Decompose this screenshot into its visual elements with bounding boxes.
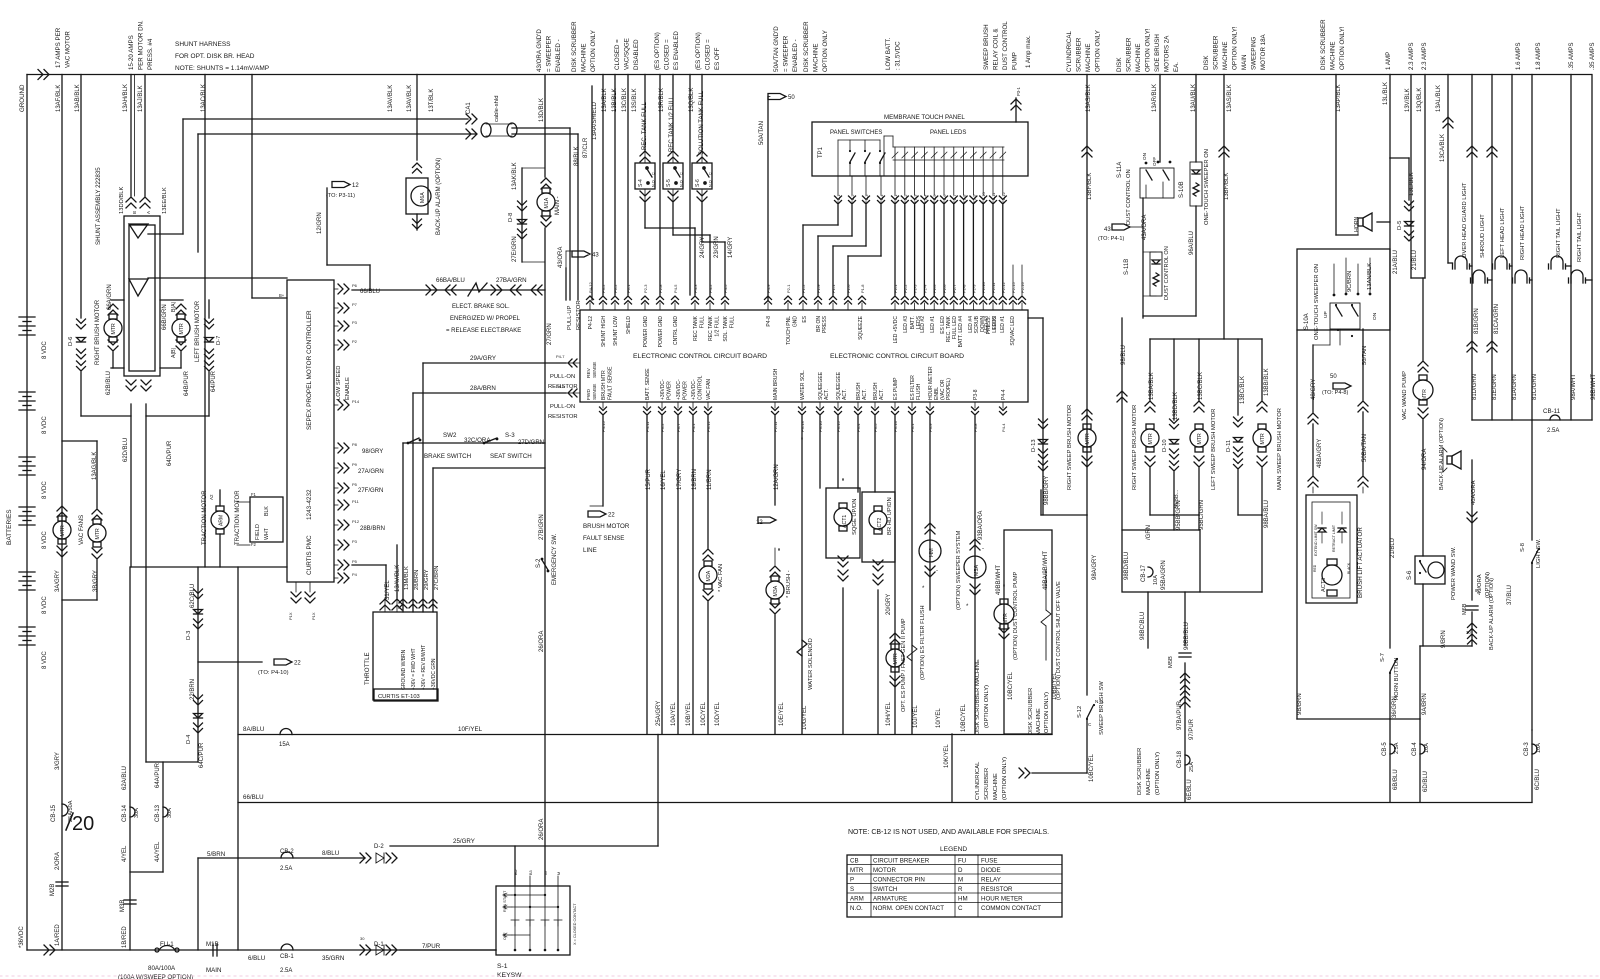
svg-text:RIGHT TAIL LIGHT: RIGHT TAIL LIGHT (1577, 212, 1583, 262)
svg-text:TOUCH PNL: TOUCH PNL (786, 316, 792, 345)
svg-text:P1-9: P1-9 (816, 284, 821, 293)
svg-text:8 VDC: 8 VDC (42, 341, 48, 359)
svg-text:FU: FU (958, 858, 966, 865)
svg-text:P2-5: P2-5 (932, 284, 937, 293)
svg-text:P1-6: P1-6 (846, 284, 851, 293)
svg-text:13M/BLK: 13M/BLK (404, 566, 410, 590)
svg-text:B3: B3 (529, 870, 533, 875)
svg-text:GROUND: GROUND (19, 84, 26, 112)
svg-text:.35 AMPS: .35 AMPS (1589, 42, 1596, 70)
svg-text:6/BLU: 6/BLU (248, 955, 265, 962)
svg-text:RESISTOR: RESISTOR (981, 886, 1013, 893)
svg-text:10BC/YEL: 10BC/YEL (1008, 671, 1014, 700)
svg-text:62B/BLU: 62B/BLU (106, 371, 112, 395)
svg-text:13AS/BLK: 13AS/BLK (1227, 84, 1233, 112)
svg-text:97/PUR: 97/PUR (1189, 718, 1195, 740)
svg-text:P2-8: P2-8 (658, 284, 663, 293)
svg-text:62A/BLU: 62A/BLU (122, 766, 128, 790)
svg-text:9/BRN: 9/BRN (1441, 630, 1447, 648)
svg-text:12/GRN: 12/GRN (317, 212, 323, 234)
svg-text:MACHINE: MACHINE (1036, 708, 1042, 735)
svg-text:P6-2: P6-2 (613, 284, 618, 293)
svg-text:81CA/GRN: 81CA/GRN (1494, 304, 1500, 334)
svg-text:6E/BLU: 6E/BLU (1187, 779, 1193, 800)
svg-text:C: C (958, 905, 963, 912)
svg-text:POWER WAND SW.: POWER WAND SW. (1451, 546, 1457, 600)
svg-text:SQGE UP/DN: SQGE UP/DN (852, 499, 858, 535)
svg-text:RESISTOR: RESISTOR (576, 300, 582, 330)
svg-text:BATTERIES: BATTERIES (6, 509, 13, 545)
svg-text:POWER: POWER (667, 381, 673, 400)
svg-text:10BC/YEL: 10BC/YEL (1089, 753, 1095, 782)
svg-text:HOUR METER: HOUR METER (981, 896, 1023, 903)
svg-text:COMMON CONTACT: COMMON CONTACT (981, 905, 1041, 912)
svg-text:66/BLU: 66/BLU (243, 794, 264, 801)
svg-text:6B/BLU: 6B/BLU (1393, 769, 1399, 790)
svg-text:10E/YEL: 10E/YEL (779, 702, 785, 726)
svg-text:M5A: M5A (974, 565, 980, 576)
svg-text:MTR: MTR (850, 867, 864, 874)
svg-text:13S/BLK: 13S/BLK (632, 88, 638, 112)
svg-text:P1-1: P1-1 (831, 284, 836, 293)
svg-text:98/GRY: 98/GRY (362, 449, 383, 455)
svg-text:POWER: POWER (683, 381, 689, 400)
svg-text:35/GRN: 35/GRN (322, 955, 344, 962)
svg-text:1 AMP: 1 AMP (1385, 52, 1392, 70)
svg-text:8 VDC: 8 VDC (42, 531, 48, 549)
svg-text:CNTRL GND: CNTRL GND (673, 316, 679, 345)
svg-text:1.8 AMPS: 1.8 AMPS (1535, 42, 1542, 70)
svg-text:N.O.: N.O. (850, 905, 863, 912)
svg-text:S-8: S-8 (1520, 543, 1526, 552)
svg-text:48/GRY: 48/GRY (1311, 379, 1317, 400)
svg-text:P2-3: P2-3 (643, 284, 648, 293)
svg-text:CB-1: CB-1 (280, 954, 294, 960)
svg-text:RED: RED (1313, 564, 1317, 572)
svg-text:1B/RED: 1B/RED (122, 926, 128, 948)
svg-text:DISK: DISK (1116, 57, 1123, 72)
svg-text:13DD/BLK: 13DD/BLK (119, 186, 125, 214)
svg-text:B: B (132, 211, 137, 214)
svg-text:P2-11: P2-11 (991, 192, 996, 203)
svg-text:MACHINE: MACHINE (1222, 41, 1229, 70)
svg-text:26/ORA: 26/ORA (539, 819, 545, 840)
svg-text:WHT: WHT (264, 527, 270, 540)
svg-text:P3-8: P3-8 (973, 389, 979, 400)
svg-text:BACK-UP ALARM (OPTION): BACK-UP ALARM (OPTION) (436, 158, 442, 235)
svg-text:15A: 15A (279, 742, 290, 748)
svg-text:PROPEL): PROPEL) (946, 378, 952, 400)
svg-text:12: 12 (756, 520, 763, 526)
svg-text:43/ORA: 43/ORA (558, 247, 564, 268)
svg-text:27C/BRN: 27C/BRN (434, 566, 440, 590)
svg-text:LED #1: LED #1 (930, 316, 936, 333)
svg-text:D-5: D-5 (1397, 221, 1403, 230)
svg-text:P4-9: P4-9 (766, 284, 771, 293)
svg-text:REV: REV (586, 367, 592, 378)
svg-text:P4-7: P4-7 (556, 354, 565, 359)
svg-text:FAULT SENSE: FAULT SENSE (583, 535, 624, 542)
svg-text:10K/YEL: 10K/YEL (944, 744, 950, 768)
svg-text:98BA/BLU: 98BA/BLU (1264, 500, 1270, 528)
svg-text:P2-9: P2-9 (971, 284, 976, 293)
svg-text:64C/PUR: 64C/PUR (199, 742, 205, 768)
svg-text:(TO: P4-1): (TO: P4-1) (1098, 236, 1124, 242)
svg-text:SWEEP BRUSH SW: SWEEP BRUSH SW (1099, 681, 1105, 735)
svg-text:CB-14: CB-14 (122, 804, 128, 822)
svg-text:DISK SCRUBBER: DISK SCRUBBER (1320, 19, 1327, 70)
svg-text:P2-4: P2-4 (922, 194, 927, 203)
svg-text:D: D (958, 867, 963, 874)
svg-text:29/GRY: 29/GRY (424, 569, 430, 590)
svg-text:43/ORA GND'D: 43/ORA GND'D (536, 29, 543, 72)
svg-text:8 VDC: 8 VDC (42, 651, 48, 669)
svg-text:P11: P11 (352, 499, 360, 504)
svg-text:PULL-UP: PULL-UP (567, 305, 573, 330)
svg-text:S-10A: S-10A (1304, 313, 1310, 330)
svg-text:1/2 FULL: 1/2 FULL (715, 316, 721, 337)
svg-text:(OPTION) ES FILTER FLUSH: (OPTION) ES FILTER FLUSH (920, 606, 926, 681)
svg-text:SQUEEZE: SQUEEZE (858, 315, 864, 340)
svg-text:P9: P9 (352, 462, 358, 467)
svg-text:62D/BLU: 62D/BLU (123, 438, 129, 462)
svg-text:OPTION ONLY!: OPTION ONLY! (1145, 28, 1152, 72)
svg-text:DUST CONTROL ON: DUST CONTROL ON (1126, 169, 1132, 225)
svg-text:R: R (958, 886, 963, 893)
svg-text:RIGHT SWEEP BRUSH MOTOR: RIGHT SWEEP BRUSH MOTOR (1132, 405, 1138, 490)
svg-text:: 31.5VDC: : 31.5VDC (895, 41, 902, 70)
svg-text:WATER SOLENOID: WATER SOLENOID (808, 638, 814, 690)
svg-text:27B/GRN: 27B/GRN (539, 514, 545, 540)
svg-text:SQ/VAC LED: SQ/VAC LED (1010, 316, 1016, 346)
svg-text:10D/YEL: 10D/YEL (715, 701, 721, 726)
svg-text:9A/BRN: 9A/BRN (1422, 693, 1428, 715)
svg-text:CB-17: CB-17 (1141, 564, 1147, 582)
svg-text:(OPTION ONLY): (OPTION ONLY) (1044, 692, 1050, 735)
svg-text:MAIN SWEEP BRUSH MOTOR: MAIN SWEEP BRUSH MOTOR (1277, 408, 1283, 490)
svg-text:CIRCUIT BREAKER: CIRCUIT BREAKER (873, 858, 930, 865)
svg-text:13V/BLK: 13V/BLK (1405, 88, 1411, 112)
svg-text:+36V = FWD WHT: +36V = FWD WHT (411, 648, 417, 690)
svg-text:P4-6: P4-6 (556, 384, 565, 389)
svg-text:13AP/BLK: 13AP/BLK (1336, 84, 1342, 112)
svg-text:ES ENABLED: ES ENABLED (673, 31, 680, 70)
svg-text:RIGHT HEAD LIGHT: RIGHT HEAD LIGHT (1520, 205, 1526, 260)
svg-text:CLOSED =: CLOSED = (664, 39, 671, 70)
svg-text:MACHINE: MACHINE (1146, 768, 1152, 795)
svg-text:VAC FAN: VAC FAN (706, 379, 712, 400)
svg-text:P2-15: P2-15 (1011, 282, 1016, 293)
svg-text:98B/WHT: 98B/WHT (1591, 374, 1597, 400)
svg-text:SCRUBBER: SCRUBBER (1213, 35, 1220, 70)
svg-text:25A/GRY: 25A/GRY (656, 701, 662, 726)
svg-text:P4-12: P4-12 (588, 282, 593, 293)
svg-text:10J/YEL: 10J/YEL (913, 705, 919, 728)
svg-text:P5: P5 (352, 559, 358, 564)
svg-text:CB-15: CB-15 (51, 804, 57, 822)
svg-text:98A/WHT: 98A/WHT (1571, 374, 1577, 400)
svg-text:ES: ES (802, 315, 808, 322)
svg-text:21A/BLU: 21A/BLU (1393, 250, 1399, 274)
svg-text:95BA/GRN: 95BA/GRN (1161, 560, 1167, 590)
svg-text:27F/GRN: 27F/GRN (358, 488, 383, 494)
svg-text:10A: 10A (1153, 575, 1159, 585)
svg-text:MOTOR 18A: MOTOR 18A (1260, 33, 1267, 70)
svg-text:50A/TAN: 50A/TAN (759, 121, 765, 145)
svg-text:2.5A: 2.5A (1394, 742, 1400, 754)
svg-text:CB-4: CB-4 (1412, 742, 1418, 756)
svg-text:27BA/GRN: 27BA/GRN (496, 277, 527, 284)
svg-text:21/BLU: 21/BLU (1390, 538, 1396, 558)
svg-text:* BRUSH -: * BRUSH - (786, 570, 792, 598)
svg-text:DIODE: DIODE (981, 867, 1001, 874)
svg-text:S-10B: S-10B (1179, 181, 1185, 198)
svg-text:BR HD UP/DN: BR HD UP/DN (887, 497, 893, 535)
svg-text:ENABLED -: ENABLED - (792, 39, 799, 72)
svg-text:27A/GRN: 27A/GRN (358, 469, 384, 475)
svg-text:BRUSH MOTOR: BRUSH MOTOR (583, 523, 630, 530)
svg-text:BLK: BLK (264, 506, 270, 516)
svg-text:10H/YEL: 10H/YEL (886, 701, 892, 726)
svg-text:(OPTION ONLY): (OPTION ONLY) (1002, 757, 1008, 800)
svg-text:P2-10: P2-10 (981, 282, 986, 293)
svg-text:P1X: P1X (311, 612, 316, 620)
svg-text:87/CLR: 87/CLR (583, 137, 589, 158)
svg-text:94/ORA: 94/ORA (1422, 449, 1428, 470)
svg-text:REC TANK: REC TANK (693, 315, 699, 340)
svg-text:FOR OPT. DISK BR. HEAD: FOR OPT. DISK BR. HEAD (175, 53, 255, 60)
svg-text:ACT.: ACT. (842, 389, 848, 400)
svg-text:13AN/BLK: 13AN/BLK (1367, 263, 1373, 290)
svg-text:2.3 AMPS: 2.3 AMPS (1421, 42, 1428, 70)
svg-text:.35 AMPS: .35 AMPS (1568, 42, 1575, 70)
svg-text:2/ORA: 2/ORA (55, 852, 61, 870)
svg-text:30: 30 (360, 936, 365, 941)
svg-text:(ES OPTION): (ES OPTION) (654, 32, 661, 70)
svg-text:81D/GRN: 81D/GRN (1472, 374, 1478, 400)
svg-text:S-5: S-5 (666, 179, 672, 187)
svg-text:FULL: FULL (700, 316, 706, 328)
svg-text:BLACK: BLACK (1347, 562, 1351, 574)
svg-text:VAC MOTOR: VAC MOTOR (65, 31, 72, 68)
svg-text:DISABLED: DISABLED (633, 39, 640, 70)
svg-text:P1-4: P1-4 (879, 194, 884, 203)
svg-text:/GRN: /GRN (1146, 525, 1152, 540)
svg-text:CYLINDRICAL: CYLINDRICAL (975, 761, 981, 800)
svg-text:P12: P12 (352, 519, 360, 524)
svg-text:ARMATURE: ARMATURE (873, 896, 907, 903)
svg-text:22: 22 (608, 513, 615, 519)
svg-text:PULL-ON: PULL-ON (550, 404, 575, 410)
svg-text:CA1: CA1 (466, 102, 472, 114)
svg-text:1A/RED: 1A/RED (55, 924, 61, 946)
svg-text:64D/PUR: 64D/PUR (167, 440, 173, 466)
svg-text:MAIN: MAIN (1241, 55, 1248, 70)
svg-text:FUSE: FUSE (981, 858, 998, 865)
svg-text:D-13: D-13 (1031, 439, 1037, 452)
svg-text:P2-12: P2-12 (1001, 282, 1006, 293)
svg-text:ARM: ARM (219, 515, 225, 526)
svg-text:M1A: M1A (544, 197, 550, 208)
svg-text:P2-7: P2-7 (952, 284, 957, 293)
svg-text:CB-11: CB-11 (1543, 408, 1561, 415)
svg-text:CB-5: CB-5 (1382, 742, 1388, 756)
svg-text:S-6: S-6 (1407, 570, 1413, 580)
svg-text:TRACTION MOTOR: TRACTION MOTOR (235, 490, 241, 545)
svg-text:HORN: HORN (1354, 216, 1360, 232)
svg-text:64/PUR: 64/PUR (211, 370, 217, 392)
svg-text:2.5A: 2.5A (280, 968, 292, 974)
svg-text:REC TANK: REC TANK (708, 315, 714, 340)
svg-text:17 AMPS PER: 17 AMPS PER (55, 27, 62, 68)
svg-text:13Q/BLK: 13Q/BLK (1417, 88, 1423, 112)
svg-text:SWITCH: SWITCH (873, 886, 897, 893)
svg-text:ENABLE: ENABLE (345, 377, 351, 400)
svg-text:MAIN: MAIN (206, 967, 221, 974)
svg-text:SHUNT HARNESS: SHUNT HARNESS (175, 41, 231, 48)
svg-text:50: 50 (1330, 374, 1337, 380)
svg-text:P5: P5 (352, 482, 358, 487)
svg-text:(ES OPTION): (ES OPTION) (695, 32, 702, 70)
svg-text:13T/BLK: 13T/BLK (429, 89, 435, 112)
svg-text:P2-16: P2-16 (1020, 282, 1025, 293)
svg-text:(OPTION) SWEEPER SYSTEM: (OPTION) SWEEPER SYSTEM (956, 530, 962, 610)
svg-text:MTR: MTR (1260, 433, 1266, 444)
svg-text:(OPTION ONLY): (OPTION ONLY) (984, 685, 990, 728)
svg-text:MTR: MTR (179, 323, 185, 334)
svg-text:P2-5: P2-5 (932, 194, 937, 203)
svg-text:SENSE: SENSE (592, 384, 598, 400)
svg-text:10G/YEL: 10G/YEL (802, 705, 808, 730)
svg-text:D-2: D-2 (374, 844, 384, 850)
svg-text:LED #1: LED #1 (1000, 316, 1006, 333)
svg-text:98BB/GRY: 98BB/GRY (1044, 476, 1050, 505)
svg-text:C: C (1088, 722, 1092, 727)
svg-text:15-20 AMPS: 15-20 AMPS (128, 35, 135, 70)
svg-text:DISK SCRUBBER: DISK SCRUBBER (803, 21, 810, 72)
svg-text:2.5A: 2.5A (280, 866, 292, 872)
svg-text:81B/GRN: 81B/GRN (1474, 308, 1480, 334)
svg-text:+36VDC-: +36VDC- (676, 379, 682, 400)
svg-text:WATER SOL.: WATER SOL. (800, 370, 806, 400)
svg-text:BATT. LED #4: BATT. LED #4 (958, 316, 964, 348)
svg-text:RESISTOR: RESISTOR (548, 414, 578, 420)
svg-text:VAC/SQGE: VAC/SQGE (624, 38, 631, 70)
svg-text:LOW SPEED: LOW SPEED (336, 366, 342, 400)
svg-text:10A: 10A (1536, 743, 1542, 753)
svg-text:MOTOR: MOTOR (873, 867, 896, 874)
svg-text:ELECTRONIC CONTROL CIRCUIT BOA: ELECTRONIC CONTROL CIRCUIT BOARD (633, 353, 767, 360)
svg-text:DISK: DISK (1203, 55, 1210, 70)
svg-text:D-6: D-6 (68, 337, 74, 346)
svg-text:P4-12: P4-12 (588, 316, 594, 330)
svg-text:P3: P3 (352, 320, 358, 325)
svg-text:(OPTION) DUST CONTROL PUMP: (OPTION) DUST CONTROL PUMP (1013, 571, 1019, 660)
svg-text:M5B: M5B (1168, 656, 1174, 668)
svg-text:M3A: M3A (773, 585, 779, 596)
svg-text:14/GRY: 14/GRY (728, 237, 734, 258)
svg-text:OFF: OFF (503, 932, 507, 940)
svg-text:7/PUR: 7/PUR (422, 943, 441, 950)
svg-text:13BB/BLK: 13BB/BLK (1264, 368, 1270, 396)
svg-text:P1-1: P1-1 (836, 194, 841, 203)
svg-text:28/BRN: 28/BRN (414, 570, 420, 590)
svg-text:27E/GRN: 27E/GRN (512, 236, 518, 262)
svg-text:ENABLED -: ENABLED - (555, 39, 562, 72)
svg-text:M2A: M2A (706, 570, 712, 581)
svg-text:GROUND W/BRN: GROUND W/BRN (401, 649, 407, 690)
svg-text:(OPTION ONLY): (OPTION ONLY) (1155, 752, 1161, 795)
svg-text:EA.: EA. (1173, 62, 1180, 72)
svg-text:8A/BLU: 8A/BLU (243, 726, 264, 733)
svg-text:3B/GRY: 3B/GRY (93, 570, 99, 592)
svg-text:10BC/YEL: 10BC/YEL (961, 703, 967, 732)
svg-text:CLOSED =: CLOSED = (614, 39, 621, 70)
svg-text:SWEEPING: SWEEPING (1251, 36, 1258, 70)
svg-text:*: * (966, 604, 969, 610)
svg-text:(TO: P4-8): (TO: P4-8) (1322, 390, 1348, 396)
svg-text:28B/BRN: 28B/BRN (360, 526, 385, 532)
svg-text:P2: P2 (352, 339, 358, 344)
svg-text:MAIN BRUSH: MAIN BRUSH (773, 368, 779, 400)
svg-text:13BF/BLK: 13BF/BLK (1087, 173, 1093, 200)
svg-text:13BC/BLK: 13BC/BLK (1240, 376, 1246, 404)
svg-text:LEFT HEAD LIGHT: LEFT HEAD LIGHT (1500, 207, 1506, 258)
svg-text:P4-4: P4-4 (1001, 389, 1007, 400)
svg-text:P2-1: P2-1 (893, 284, 898, 293)
svg-text:24/GRY: 24/GRY (700, 237, 706, 258)
svg-text:32C/ORA: 32C/ORA (464, 437, 491, 444)
svg-text:ONE-TOUCH SWEEPER ON: ONE-TOUCH SWEEPER ON (1314, 264, 1320, 340)
svg-text:S-11B: S-11B (1124, 259, 1130, 275)
svg-text:MAIN -: MAIN - (555, 196, 561, 215)
svg-text:P3: P3 (352, 539, 358, 544)
svg-text:B(A): B(A) (171, 301, 177, 312)
svg-text:F1: F1 (251, 492, 257, 497)
svg-text:OPTION ONLY!: OPTION ONLY! (1232, 26, 1239, 70)
svg-text:SWEEP BRUSH: SWEEP BRUSH (983, 24, 990, 70)
svg-text:M6A: M6A (420, 192, 426, 203)
svg-text:A: A (146, 211, 151, 214)
svg-text:P14: P14 (352, 399, 360, 404)
svg-text:GND: GND (793, 316, 799, 328)
svg-text:X = CLOSED CONTACT: X = CLOSED CONTACT (573, 903, 577, 945)
svg-text:87: 87 (1475, 588, 1480, 593)
svg-text:BRUSH LIFT ACTUATOR: BRUSH LIFT ACTUATOR (1357, 527, 1364, 598)
svg-text:SCRUBBER: SCRUBBER (1076, 37, 1083, 72)
svg-text:12: 12 (352, 183, 359, 189)
svg-text:13C/BLK: 13C/BLK (622, 88, 628, 112)
svg-text:64B/PUR: 64B/PUR (184, 370, 190, 396)
svg-text:RELAY COIL &: RELAY COIL & (993, 28, 1000, 70)
svg-text:ENERGIZED W/ PROPEL: ENERGIZED W/ PROPEL (450, 316, 521, 322)
svg-text:PRESS: PRESS (822, 315, 828, 333)
svg-text:P4-5: P4-5 (673, 284, 678, 293)
svg-text:M6B: M6B (1462, 603, 1468, 615)
svg-text:* VAC FAN: * VAC FAN (718, 564, 724, 592)
svg-text:P7: P7 (352, 302, 358, 307)
svg-text:SW2: SW2 (443, 432, 457, 439)
svg-text:PANEL LEDS: PANEL LEDS (930, 130, 966, 136)
svg-text:ES PUMP: ES PUMP (893, 377, 899, 400)
svg-text:OFF: OFF (1152, 157, 1157, 166)
svg-text:D-3: D-3 (186, 631, 192, 640)
svg-text:13E/BLK: 13E/BLK (1409, 172, 1415, 196)
svg-text:8/BLU: 8/BLU (322, 850, 339, 857)
svg-text:RIGHT BRUSH MOTOR: RIGHT BRUSH MOTOR (95, 299, 101, 365)
svg-text:9C/BRN: 9C/BRN (1347, 271, 1353, 292)
svg-text:10BB/YEL: 10BB/YEL (1052, 672, 1058, 700)
